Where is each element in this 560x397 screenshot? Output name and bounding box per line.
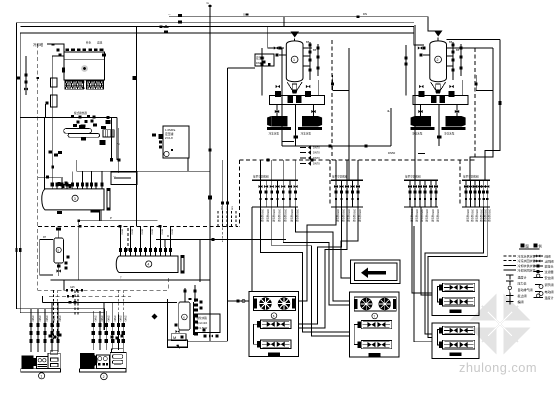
- dashed stubs under pump labels: [217, 211, 219, 226]
- machine unit M1 mid module: [36, 357, 48, 369]
- svg-text:G40: G40: [231, 206, 233, 211]
- svg-text:M: M: [173, 335, 176, 340]
- svg-text:DN50: DN50: [121, 229, 123, 235]
- svg-text:图: 图: [526, 244, 529, 248]
- wire snake A4: [283, 207, 350, 305]
- svg-text:DN50接空调: DN50接空调: [425, 209, 429, 222]
- svg-text:4: 4: [147, 263, 149, 267]
- svg-text:DN50接空调: DN50接空调: [415, 209, 419, 222]
- wire main vertical x210: [209, 5, 211, 342]
- legend title squares: [521, 243, 525, 247]
- wire dashed vertical x239.5: [239, 160, 241, 226]
- cooling tower inlet pipe: [52, 56, 64, 189]
- distributor risers: [120, 226, 122, 247]
- wire y240 stub right: [156, 239, 286, 241]
- svg-text:DN50接空调: DN50接空调: [466, 209, 470, 222]
- tank T3 top risers: [51, 177, 53, 182]
- svg-text:3: 3: [74, 197, 76, 201]
- svg-text:B5: B5: [313, 48, 317, 52]
- svg-text:DN50接空调: DN50接空调: [290, 209, 294, 222]
- tank T5 enclosure: [40, 239, 53, 275]
- svg-text:冷冻水泵: 冷冻水泵: [269, 132, 280, 136]
- tower outlet to HX: [45, 104, 47, 118]
- tank T3 support: [91, 210, 100, 213]
- svg-text:DN50接空调: DN50接空调: [347, 209, 351, 222]
- tank V1 left nozzle cluster: [279, 47, 282, 50]
- svg-text:温度计: 温度计: [545, 295, 554, 300]
- tank V2 vertical body: [430, 41, 447, 82]
- svg-text:冷却水回水管: 冷却水回水管: [518, 267, 536, 272]
- svg-text:软化水箱: 软化水箱: [197, 316, 208, 320]
- machine unit M2 base: [79, 369, 126, 372]
- svg-text:安全阀: 安全阀: [545, 275, 554, 280]
- pressure gauge circle: [164, 151, 169, 156]
- wire main supply left border: [17, 23, 415, 309]
- svg-text:DN50接空调: DN50接空调: [272, 209, 276, 222]
- wire top pipe B: [20, 27, 424, 45]
- svg-text:1: 1: [293, 58, 295, 62]
- svg-text:DN50: DN50: [141, 229, 143, 235]
- svg-text:DN50接空调: DN50接空调: [471, 209, 475, 222]
- svg-text:止回阀: 止回阀: [545, 258, 554, 263]
- svg-text:DN50: DN50: [131, 229, 133, 235]
- svg-text:DN50: DN50: [151, 229, 153, 235]
- svg-text:DN70: DN70: [313, 151, 320, 155]
- svg-text:DN50接空调: DN50接空调: [487, 209, 491, 222]
- svg-text:Q=2m3/h: Q=2m3/h: [197, 321, 208, 325]
- wire box corner drop x188: [187, 158, 189, 171]
- wire stub x227 to air vent: [228, 67, 256, 69]
- svg-text:B5: B5: [456, 48, 460, 52]
- wire snake A5: [296, 207, 350, 301]
- svg-text:DN40: DN40: [58, 316, 60, 323]
- svg-text:DN50接空调: DN50接空调: [278, 209, 282, 222]
- pump group P2 center drop: [438, 105, 440, 147]
- svg-text:G40: G40: [220, 206, 222, 211]
- tower right corner junction: [102, 53, 106, 56]
- svg-text:2: 2: [103, 375, 105, 379]
- pump group P2 inlet bowties: [418, 110, 422, 113]
- svg-text:DN50接空调: DN50接空调: [266, 209, 270, 222]
- svg-text:DN40: DN40: [113, 316, 115, 323]
- wire snake D1: [425, 207, 484, 334]
- dashed line y226 glyphs: [79, 225, 82, 228]
- pump P1a body: [271, 116, 287, 127]
- pump P1b body: [302, 116, 318, 127]
- svg-text:B5: B5: [306, 40, 310, 44]
- svg-text:4L: 4L: [387, 109, 391, 113]
- tank V1 left pipe marks: [260, 57, 263, 60]
- wire tank T3 feed header: [37, 176, 39, 178]
- tank T3 top valves row: [51, 183, 53, 190]
- AHU box U2 coil row1: [361, 321, 392, 329]
- svg-text:—: —: [168, 13, 171, 16]
- wire dashed vertical x332: [331, 40, 333, 160]
- svg-text:G: G: [207, 1, 210, 5]
- dashed line y160 glyphs: [267, 159, 270, 162]
- expansion pipe labels mid: [152, 133, 156, 136]
- svg-text:DN40: DN40: [45, 316, 47, 323]
- tower inlet flange: [62, 68, 65, 73]
- wire snake A2: [261, 207, 350, 332]
- svg-text:冷冻水回水管: 冷冻水回水管: [518, 258, 536, 263]
- wire top pipe A: [169, 17, 436, 31]
- svg-text:R: R: [167, 234, 169, 238]
- wire x493 feed: [455, 47, 493, 49]
- svg-text:DN50: DN50: [171, 229, 173, 235]
- wire dashed vertical left x37.8: [37, 44, 39, 290]
- tank V2 circle label: [435, 56, 442, 63]
- tank top pump cluster: [57, 182, 60, 186]
- pump P2a body: [415, 116, 431, 127]
- HX right risers: [111, 118, 113, 160]
- tank T3 drain: [57, 211, 62, 214]
- wire x200 drop: [199, 240, 201, 282]
- pump P2b body: [445, 116, 461, 127]
- cooling tower fill hatch left: [65, 81, 84, 89]
- wire snake A3: [272, 207, 350, 336]
- dashed continuation below y226: [209, 228, 211, 243]
- AHU box U1 coil row1: [261, 320, 292, 328]
- distributor D1 top valve row: [120, 247, 122, 256]
- control arrow box inner: [355, 263, 398, 281]
- AHU box U1 number circle: [271, 313, 277, 319]
- glyph on x500: [498, 101, 501, 105]
- tower drain components: [51, 78, 58, 87]
- manifold A header: [252, 179, 298, 181]
- softener M box: [171, 334, 186, 341]
- softener diamond mark: [152, 314, 158, 320]
- wire dashed vertical x475: [474, 48, 476, 160]
- machine unit M2 mid module: [96, 355, 109, 368]
- AHU box U2 outer: [350, 292, 400, 357]
- wire main return left border: [20, 33, 413, 313]
- fan coil box F2 bottom bar: [450, 353, 462, 357]
- wire riser x136.5 main: [136, 27, 138, 227]
- dashed drops to unit2: [117, 290, 119, 339]
- wire dashed vertical x330 lower: [329, 160, 331, 205]
- wire y141 stub: [282, 141, 294, 143]
- wire x44.4 drop: [43, 118, 45, 189]
- wire y146 header: [282, 145, 391, 147]
- pump group P1 tank cone: [287, 82, 302, 90]
- svg-text:DN40: DN40: [119, 316, 121, 323]
- svg-text:接至空调机组: 接至空调机组: [463, 175, 479, 179]
- glyph y146 ticks: [329, 145, 332, 148]
- softener tank T6: [179, 302, 190, 330]
- wire dashed vertical x128: [127, 228, 129, 253]
- softener info box: [195, 314, 221, 333]
- machine unit M2 right module: [110, 352, 126, 368]
- svg-text:冷却水供水管: 冷却水供水管: [518, 263, 536, 268]
- machine unit M2 number: [101, 373, 108, 380]
- tank V1 right valve stack: [309, 42, 311, 80]
- tank V1 vertical body: [286, 41, 303, 82]
- svg-text:DN: DN: [363, 12, 367, 16]
- AHU box U1 bracket: [254, 324, 258, 344]
- svg-text:接至空调机组: 接至空调机组: [405, 175, 421, 179]
- svg-text:DN70: DN70: [313, 162, 320, 166]
- HX nozzle cluster top: [71, 115, 74, 118]
- svg-text:DN40: DN40: [31, 316, 33, 323]
- tank V1 circle label: [291, 56, 298, 63]
- valve label rows mid: [300, 147, 306, 149]
- svg-text:DN50接空调: DN50接空调: [283, 209, 287, 222]
- svg-text:溢流: 溢流: [97, 41, 103, 45]
- wire snake B4: [341, 207, 358, 278]
- pressure tank label box: [163, 126, 189, 158]
- svg-text:DN40: DN40: [106, 316, 108, 323]
- pump cluster CWP: [49, 150, 53, 153]
- distributor D1 circle label: [146, 261, 152, 267]
- svg-text:接至空调机组: 接至空调机组: [253, 175, 269, 179]
- svg-text:DN50接空调: DN50接空调: [353, 209, 357, 222]
- pump P2 side risers: [461, 80, 463, 96]
- pump cluster near softener: [204, 335, 207, 338]
- svg-text:DN40: DN40: [38, 316, 40, 323]
- wire drop to tank1: [268, 27, 284, 48]
- svg-text:DN50接空调: DN50接空调: [261, 209, 265, 222]
- tank V2 left pipe marks: [404, 57, 407, 60]
- manifold B header: [331, 179, 363, 181]
- distributor D1 end plates: [177, 256, 179, 273]
- AHU box U2 coil row2: [361, 341, 392, 349]
- border tick top: [16, 77, 20, 80]
- tank T3 right end plates: [103, 189, 105, 211]
- manifold D header: [462, 179, 490, 181]
- wire bottom header x104 drop: [103, 302, 105, 330]
- fan coil box F1 row1: [443, 283, 475, 291]
- svg-text:压力表: 压力表: [518, 280, 527, 285]
- svg-text:DN50接空调: DN50接空调: [475, 209, 479, 222]
- svg-text:过滤器: 过滤器: [545, 269, 554, 274]
- wire snake B2: [299, 207, 342, 324]
- fan coil box F1 bottom bar: [450, 310, 462, 314]
- control arrow symbol: [368, 271, 386, 275]
- watermark zhulong pinwheel: [466, 290, 534, 358]
- svg-text:软接头: 软接头: [545, 263, 554, 268]
- pump group P1 center drop: [295, 105, 297, 147]
- svg-text:例: 例: [539, 243, 542, 248]
- wire dashed vertical x168.7 up: [168, 278, 170, 290]
- cooling tower CT1 box: [64, 52, 105, 80]
- machine unit M1 motor block: [21, 356, 33, 369]
- wire bottom riser x42.5: [42, 296, 44, 302]
- pump group P2 flank valves: [419, 85, 423, 88]
- AHU box U1 bottom bar: [268, 353, 280, 357]
- tank T3 horizontal body: [42, 189, 104, 210]
- distributor D1 body: [116, 256, 178, 273]
- svg-text:DN50接空调: DN50接空调: [358, 209, 362, 222]
- svg-text:N=1.5kW: N=1.5kW: [197, 326, 208, 330]
- tank V2 inlet valve triangle: [434, 31, 443, 37]
- wire snake C1: [412, 207, 432, 293]
- HX1 end plate hatched: [103, 130, 114, 137]
- svg-text:6: 6: [273, 314, 275, 318]
- pump group P1 flank valves: [276, 85, 280, 88]
- fan coil box F2 row2: [443, 340, 475, 349]
- fan coil box F2 bracket: [438, 330, 441, 346]
- wire y220 header: [79, 220, 158, 222]
- unit1 extra cluster: [49, 335, 52, 338]
- svg-text:DN50接空调: DN50接空调: [436, 209, 440, 222]
- valve stack left of tower: [25, 56, 27, 95]
- cooling tower fill hatch right: [87, 81, 105, 89]
- tank V1 right nozzles: [303, 47, 312, 49]
- svg-text:DN50接空调: DN50接空调: [336, 209, 340, 222]
- svg-text:调节阀: 调节阀: [545, 282, 554, 287]
- wire x282 drop: [281, 48, 283, 146]
- unit2 extra cluster: [111, 336, 114, 339]
- svg-text:DN50接空调: DN50接空调: [431, 209, 435, 222]
- wire snake D2: [428, 207, 487, 338]
- tank V2 left nozzle cluster: [423, 47, 426, 50]
- manifold C header: [404, 179, 438, 181]
- svg-text:冷冻水泵: 冷冻水泵: [412, 132, 423, 136]
- tank V2 right valve stack: [452, 42, 454, 80]
- legend column2 symbols: [534, 255, 544, 257]
- valve columns unit1: [30, 315, 32, 353]
- tank V1 inlet valve triangle: [291, 32, 300, 38]
- manifold A stubs: [260, 180, 262, 207]
- border tick marks: [15, 248, 17, 252]
- wire snake C3: [414, 226, 432, 342]
- svg-text:—: —: [113, 174, 116, 178]
- valve columns unit2: [92, 315, 94, 351]
- pump P1 side risers: [318, 80, 320, 96]
- wire riser x76.7: [76, 160, 78, 171]
- svg-text:截止阀: 截止阀: [518, 293, 527, 298]
- svg-text:ZYA-8: ZYA-8: [165, 136, 173, 140]
- svg-text:zhulong.com: zhulong.com: [459, 360, 537, 375]
- wire dashed horizontal y160: [240, 159, 477, 161]
- svg-text:DN70: DN70: [313, 156, 320, 160]
- manifold feed risers: [260, 160, 262, 180]
- wire bottom header y302: [43, 301, 178, 303]
- svg-text:接至空调机组: 接至空调机组: [332, 175, 348, 179]
- softener right stack: [193, 302, 195, 335]
- wire y282 bottom header: [50, 279, 210, 281]
- svg-text:冷却塔: 冷却塔: [33, 42, 44, 47]
- machine unit M2 motor block: [80, 353, 95, 368]
- svg-text:冷冻水泵: 冷冻水泵: [301, 132, 312, 136]
- svg-text:P: P: [110, 216, 112, 220]
- svg-text:温度计: 温度计: [518, 274, 527, 279]
- svg-text:DN50接空调: DN50接空调: [480, 209, 484, 222]
- AHU box U2 bracket: [354, 325, 358, 345]
- pump group P2 suction header: [413, 96, 468, 105]
- dashed line y290 glyphs: [66, 289, 68, 291]
- riser x222.3: [221, 160, 223, 226]
- wire riser x284: [283, 17, 285, 27]
- control arrow box outer: [351, 260, 401, 283]
- wire x165 stub: [164, 240, 166, 247]
- svg-text:6: 6: [183, 316, 185, 320]
- wire x391 riser: [390, 108, 392, 146]
- AHU box U2 bottom bar: [369, 353, 381, 357]
- svg-text:冷冻水泵: 冷冻水泵: [444, 132, 455, 136]
- tank V2 right nozzles: [447, 47, 456, 49]
- svg-text:蝶阀: 蝶阀: [518, 299, 524, 304]
- pump group P1 suction header: [270, 96, 325, 105]
- AHU box U2 number circle: [372, 313, 378, 319]
- wire main vertical x227.5: [227, 68, 229, 341]
- wire y177 stub: [38, 176, 61, 178]
- manifold C stubs: [409, 180, 411, 207]
- small vertical tank T5: [54, 238, 63, 263]
- wire dashed horizontal y296: [49, 295, 131, 297]
- wire snake B3: [299, 207, 348, 328]
- tank T5 bottom valves: [58, 263, 60, 276]
- manifold B stubs: [335, 180, 337, 207]
- wire dashed vertical x460 lower: [459, 160, 461, 205]
- plate heat exchanger HX1 body: [64, 129, 92, 134]
- junction box right of tank1: [111, 172, 137, 185]
- legend column1 symbols: [504, 255, 517, 257]
- wire top of x500: [447, 39, 501, 41]
- svg-text:DN50: DN50: [161, 229, 163, 235]
- svg-text:DN50: DN50: [388, 151, 396, 155]
- HX1 bolts: [79, 125, 85, 128]
- softener unit enclosure: [168, 299, 188, 347]
- machine unit M1 right module: [48, 353, 60, 368]
- AHU box U2 fan section: [354, 297, 396, 311]
- svg-text:DN40: DN40: [93, 316, 95, 323]
- fan coil box F1 outer: [432, 280, 479, 315]
- svg-text:G: G: [243, 13, 245, 17]
- softener lower box: [168, 340, 188, 348]
- fan coil box F2 outer: [432, 323, 479, 358]
- pump group P1 inlet bowties: [275, 110, 279, 113]
- svg-text:电动阀: 电动阀: [545, 289, 554, 294]
- glyph on x210 mid: [209, 149, 212, 152]
- wire dashed horizontal y290: [38, 289, 169, 291]
- AHU box U1 fan section: [254, 297, 296, 311]
- air vent cluster: [263, 61, 266, 64]
- tank T5 top cap: [58, 230, 60, 238]
- wire HX riser x117 down: [116, 118, 118, 160]
- wire snake B1: [299, 207, 337, 301]
- svg-text:闸阀: 闸阀: [545, 253, 551, 258]
- cooling tower top dashes: [66, 49, 70, 52]
- tank T3 circle label: [72, 195, 78, 201]
- svg-text:冷冻水供水管: 冷冻水供水管: [518, 253, 536, 258]
- AHU box U1 outer: [249, 292, 299, 357]
- fan coil box F2 row1: [443, 326, 475, 334]
- softener tank top pipes: [184, 288, 186, 302]
- top pipe valve labels: [173, 16, 178, 18]
- wire y171 header: [77, 170, 210, 172]
- machine unit M1 number: [39, 373, 45, 379]
- fan coil box F1 bracket: [438, 287, 441, 303]
- machine unit M1 base: [21, 369, 61, 372]
- svg-text:7: 7: [120, 276, 122, 280]
- cooling tower fan circle: [81, 65, 88, 72]
- svg-text:2: 2: [437, 58, 439, 62]
- svg-text:DN40: DN40: [123, 316, 125, 323]
- pump group P2 tank cone: [431, 82, 446, 90]
- svg-text:1: 1: [40, 374, 42, 378]
- svg-text:DN50接空调: DN50接空调: [342, 209, 346, 222]
- svg-text:自动排气阀: 自动排气阀: [518, 287, 533, 292]
- wire snake C2: [421, 207, 432, 295]
- svg-text:R7: R7: [43, 236, 47, 239]
- wire x78.7 drop: [78, 221, 80, 280]
- wire unit1 col feeds: [30, 309, 32, 315]
- AHU box U1 coil row2: [261, 340, 292, 348]
- wire x101 tank support drop: [100, 210, 102, 221]
- svg-text:补水: 补水: [86, 41, 92, 45]
